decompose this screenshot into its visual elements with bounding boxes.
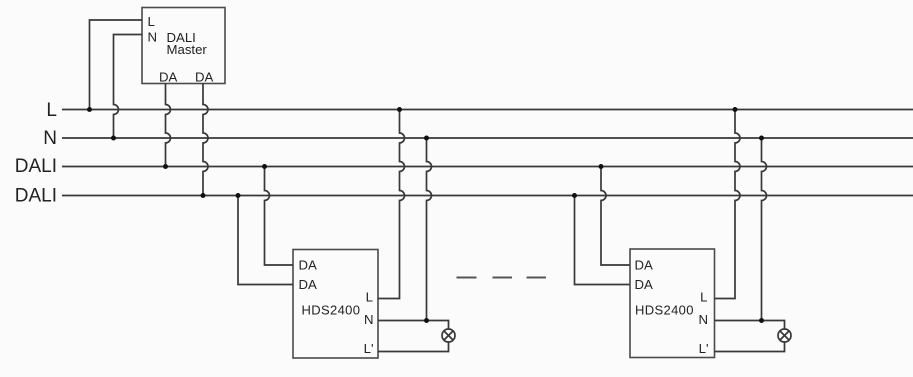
wire U3 N pin to lamp E2: [715, 321, 785, 330]
wire U1 N pin to bus N (hop over L): [114, 35, 143, 139]
junction U3 drop on bus N: [759, 136, 764, 141]
svg-text:N: N: [364, 312, 374, 327]
wire U2 L' pin to lamp E1: [378, 342, 449, 352]
svg-text:L: L: [700, 290, 707, 305]
svg-text:Master: Master: [167, 42, 208, 57]
junction U3-DA1 on bus DALI upper: [599, 164, 604, 169]
wire U1 DA1 to bus DALI upper (hops over L,N): [166, 84, 171, 167]
wire U2 DA1 to bus DALI upper (hop over lower DALI): [265, 167, 294, 266]
junction U3-L on bus L: [733, 107, 738, 112]
svg-text:DALI: DALI: [15, 185, 57, 206]
junction U2-L on bus L: [397, 107, 402, 112]
HDS2400 U3 box: [630, 249, 715, 358]
wire bus N: [62, 137, 913, 139]
junction U1-N on bus N: [111, 136, 116, 141]
junction U1-L on bus L: [87, 107, 92, 112]
continuation dashes: [457, 277, 547, 279]
wire U1 DA2 to bus DALI lower (hops over L,N,DALI): [203, 84, 208, 196]
wire bus L: [62, 109, 913, 111]
svg-text:DA: DA: [159, 70, 178, 85]
svg-text:DA: DA: [635, 258, 654, 273]
svg-text:HDS2400: HDS2400: [302, 302, 361, 317]
svg-text:L: L: [148, 14, 155, 29]
svg-text:DA: DA: [299, 277, 318, 292]
junction on U2 N wire: [424, 318, 429, 323]
wire U2 N pin to lamp E1: [378, 321, 449, 330]
svg-text:DALI: DALI: [15, 156, 57, 177]
junction U1-DA1 on bus DALI upper: [163, 164, 168, 169]
junction on U3 N wire: [759, 318, 764, 323]
svg-text:DA: DA: [299, 258, 318, 273]
junction U3-DA2 on bus DALI lower: [572, 193, 577, 198]
svg-text:HDS2400: HDS2400: [635, 302, 694, 317]
wire U3 DA2 to bus DALI lower: [575, 196, 630, 285]
svg-text:L': L': [364, 341, 374, 356]
svg-text:DA: DA: [635, 277, 654, 292]
junction U2-DA2 on bus DALI lower: [236, 193, 241, 198]
wire U1 L pin to bus L: [90, 20, 143, 110]
lamp E1: [442, 329, 455, 342]
svg-text:L: L: [46, 100, 57, 121]
wire bus DALI (lower): [62, 195, 913, 197]
svg-text:N: N: [43, 128, 57, 149]
DALI Master U1 box: [142, 8, 225, 84]
junction U2-DA1 on bus DALI upper: [262, 164, 267, 169]
wire U2 L pin to bus L (hops over N,DALI,DALI): [378, 110, 405, 299]
junction U2 drop on bus N: [424, 136, 429, 141]
wire U3 DA1 to bus DALI upper (hop over lower DALI): [601, 167, 630, 266]
wire bus N drop to U3 N wire (hops over DALI,DALI): [762, 138, 767, 321]
wire U2 DA2 to bus DALI lower: [238, 196, 293, 285]
HDS2400 U2 box: [293, 250, 378, 359]
svg-text:L': L': [699, 341, 709, 356]
svg-text:N: N: [698, 312, 708, 327]
svg-text:L: L: [366, 290, 373, 305]
wire bus N drop to U2 N wire (hops over DALI,DALI): [427, 138, 432, 321]
junction U1-DA2 on bus DALI lower: [201, 193, 206, 198]
wire bus DALI (upper): [62, 166, 913, 168]
svg-text:DA: DA: [195, 70, 214, 85]
wire U3 L' pin to lamp E2: [715, 342, 785, 352]
lamp E2: [778, 329, 791, 342]
wire U3 L pin to bus L (hops over N,DALI,DALI): [715, 110, 741, 299]
svg-text:N: N: [148, 30, 158, 45]
